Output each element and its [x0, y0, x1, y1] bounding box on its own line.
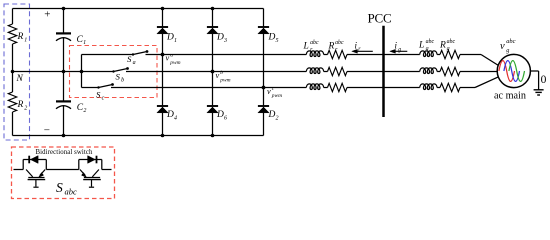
svg-text:g: g [426, 46, 429, 52]
svg-text:S: S [127, 54, 132, 64]
svg-text:b: b [121, 78, 124, 84]
svg-text:D: D [166, 33, 174, 43]
svg-text:N: N [16, 74, 24, 84]
svg-text:g: g [398, 47, 401, 53]
svg-text:S: S [96, 90, 101, 100]
svg-text:v: v [500, 41, 505, 52]
svg-text:v: v [216, 71, 220, 80]
svg-text:pwm: pwm [219, 77, 230, 83]
svg-text:3: 3 [223, 38, 227, 44]
svg-text:R: R [439, 41, 446, 51]
svg-text:b: b [220, 70, 223, 76]
svg-text:+: + [44, 9, 50, 21]
svg-text:abc: abc [65, 187, 78, 197]
svg-text:abc: abc [335, 40, 344, 46]
svg-text:2: 2 [24, 105, 27, 111]
svg-text:L: L [303, 42, 309, 52]
svg-text:6: 6 [224, 116, 227, 122]
svg-text:2: 2 [276, 116, 279, 122]
svg-text:v: v [166, 54, 170, 63]
svg-text:2: 2 [83, 108, 86, 114]
svg-text:R: R [328, 42, 335, 52]
svg-text:D: D [268, 33, 276, 43]
svg-text:abc: abc [310, 40, 319, 46]
svg-text:PCC: PCC [368, 11, 392, 26]
svg-text:abc: abc [426, 39, 435, 45]
svg-text:D: D [268, 110, 276, 120]
svg-text:4: 4 [174, 115, 177, 122]
svg-text:1: 1 [24, 37, 27, 43]
svg-text:v: v [267, 87, 271, 96]
svg-text:D: D [216, 33, 224, 43]
svg-text:abc: abc [506, 38, 515, 45]
svg-text:pwm: pwm [271, 93, 282, 99]
svg-text:S: S [56, 180, 63, 195]
svg-text:L: L [418, 41, 424, 51]
svg-text:R: R [17, 32, 24, 42]
svg-text:R: R [17, 100, 24, 110]
svg-text:0: 0 [541, 74, 547, 86]
svg-text:−: − [44, 124, 50, 136]
svg-text:ac main: ac main [494, 91, 526, 102]
svg-text:a: a [170, 53, 173, 59]
svg-text:S: S [116, 72, 121, 82]
svg-text:abc: abc [447, 39, 456, 45]
svg-text:Bidirectional switch: Bidirectional switch [36, 149, 93, 156]
svg-text:D: D [166, 110, 174, 120]
svg-text:1: 1 [83, 40, 86, 46]
svg-text:5: 5 [276, 38, 279, 44]
svg-text:g: g [506, 47, 509, 54]
svg-text:1: 1 [174, 38, 177, 44]
svg-text:a: a [133, 60, 136, 66]
svg-text:g: g [447, 46, 450, 52]
svg-text:pwm: pwm [169, 60, 180, 66]
svg-text:c: c [102, 96, 105, 102]
svg-text:D: D [216, 110, 224, 120]
